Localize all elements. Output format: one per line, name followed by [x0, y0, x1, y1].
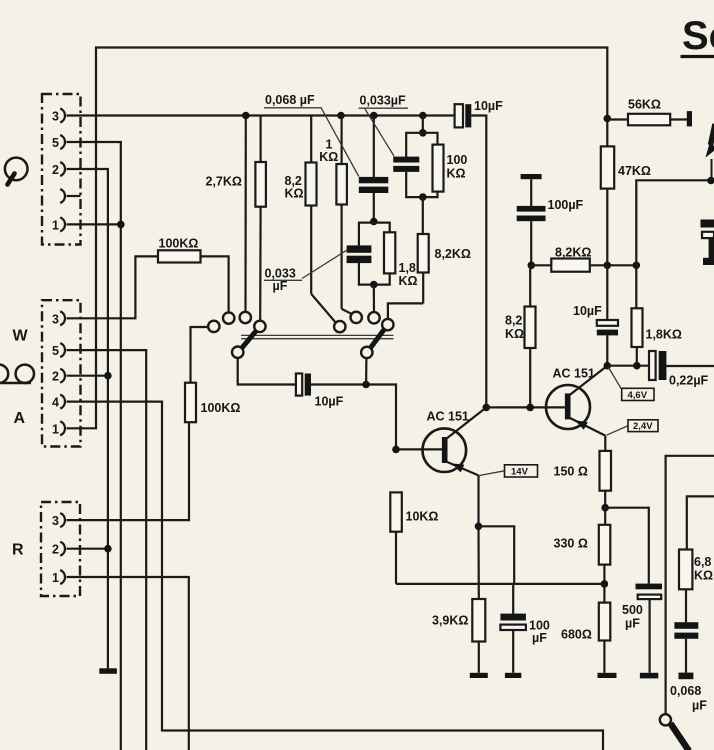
- junction: top of C3/R5 pair: [419, 129, 427, 137]
- switch S1a contact c2: [223, 312, 234, 323]
- wire: collector row to C8: [607, 365, 649, 367]
- svg-text:8,2KΩ: 8,2KΩ: [555, 246, 591, 260]
- pin 3 of B3: [60, 513, 65, 527]
- wire: branch down from input row to C3/R5 pair: [422, 116, 424, 133]
- leader to C1: [322, 109, 359, 177]
- pin 1 of B1: [60, 217, 65, 231]
- switch S1b contact c2: [351, 312, 362, 323]
- wire: parallel rails of C3/R5: [406, 133, 437, 157]
- resistor R5 100K: [433, 145, 444, 192]
- wire: Q1 collector node to Q2 base: [486, 406, 565, 408]
- svg-text:A: A: [14, 410, 26, 427]
- wire: Q1 base: [396, 448, 442, 450]
- svg-text:0,068µF: 0,068µF: [670, 684, 707, 713]
- wire: next stage corner (cut): [687, 496, 714, 549]
- pin 2 of B2: [60, 369, 65, 383]
- svg-text:1: 1: [52, 422, 59, 436]
- svg-text:3,9KΩ: 3,9KΩ: [432, 614, 468, 628]
- svg-text:680Ω: 680Ω: [561, 628, 592, 642]
- svg-text:10µF: 10µF: [315, 395, 344, 409]
- svg-text:AC 151: AC 151: [427, 410, 469, 424]
- junction: node at 100K/0,033 branch: [419, 112, 427, 120]
- junction: R10 / R12 node: [633, 262, 641, 270]
- svg-text:AC 151: AC 151: [553, 367, 595, 381]
- terminal bar (supply tap): [687, 111, 692, 126]
- svg-text:0,22µF: 0,22µF: [669, 374, 709, 388]
- wire: Q2 emitter down: [604, 436, 606, 451]
- svg-text:5: 5: [52, 136, 59, 150]
- svg-text:Sc: Sc: [682, 14, 714, 58]
- wire: B2 pin5 down bus: [67, 350, 147, 750]
- svg-text:1,8KΩ: 1,8KΩ: [646, 328, 682, 342]
- svg-text:1: 1: [52, 218, 59, 232]
- svg-text:2,4V: 2,4V: [633, 421, 653, 432]
- svg-text:330 Ω: 330 Ω: [554, 537, 588, 551]
- svg-text:3: 3: [52, 514, 59, 528]
- tape recorder symbol: [0, 365, 34, 383]
- transistor Q1 AC151: [423, 407, 487, 475]
- measuring point 4,6V: [609, 368, 655, 401]
- resistor R11 56K (horizontal): [607, 114, 687, 126]
- capacitor C4 10uF (input row): [455, 104, 472, 127]
- wire: S1b pivot down to node: [365, 358, 367, 384]
- switch S2 contact: [660, 714, 671, 725]
- resistor R1 2,7K: [255, 116, 266, 321]
- wire: right branch from 1,8K to edge: [636, 180, 712, 265]
- wire: emitter to R13: [477, 526, 479, 599]
- svg-text:4,6V: 4,6V: [628, 390, 648, 401]
- svg-text:14V: 14V: [511, 466, 529, 477]
- junction: node at 1K branch: [337, 112, 345, 120]
- junction: Q1 base node: [392, 446, 400, 454]
- svg-text:10KΩ: 10KΩ: [406, 510, 439, 524]
- capacitor C11 0,068uF: [674, 622, 698, 672]
- svg-text:47KΩ: 47KΩ: [618, 164, 651, 178]
- resistor R12 1,8K (vertical): [632, 265, 643, 365]
- svg-text:56KΩ: 56KΩ: [628, 98, 661, 112]
- junction: bottom of C2/R4 pair: [370, 281, 378, 289]
- junction: Q1 emitter node: [475, 523, 483, 531]
- resistor R14 8,2K (bias): [525, 265, 536, 407]
- wire: node to C9: [605, 508, 649, 584]
- wire: B1 pin2 to ground bus: [67, 169, 108, 669]
- wire: switch feed down from input row: [244, 116, 247, 312]
- leader to C2: [302, 250, 347, 279]
- junction: R14 on Q2 base row: [526, 404, 534, 412]
- resistor R2 8,2K: [306, 116, 336, 323]
- junction: Q2 collector node: [604, 362, 612, 370]
- junction: S1b pivot node: [362, 381, 370, 389]
- switch S1b pivot contact: [361, 347, 372, 358]
- wire: S1b c4 up to R6: [388, 303, 423, 319]
- svg-text:KΩ: KΩ: [319, 150, 338, 164]
- resistor R10 8,2K (horizontal): [531, 259, 636, 272]
- wire: B1 pin5 down bus: [67, 142, 121, 750]
- resistor R9 10K: [390, 492, 402, 584]
- resistor R6 8,2K: [418, 197, 429, 303]
- junction: top of C2/R4 pair: [370, 218, 378, 226]
- wire: bottom rail: [396, 583, 604, 585]
- resistor R12a 47K: [601, 146, 614, 320]
- svg-text:2,7KΩ: 2,7KΩ: [206, 175, 242, 189]
- svg-text:2: 2: [52, 370, 59, 384]
- switch S1b contact c1: [334, 321, 345, 332]
- capacitor C3 0,033uF: [393, 157, 419, 172]
- wire: emitter jog to bottom rail: [479, 526, 515, 584]
- measuring point 2,4V: [607, 420, 659, 435]
- svg-text:6,8KΩ: 6,8KΩ: [694, 555, 713, 583]
- wire: B3 pin2 to ground bus: [67, 548, 108, 550]
- junction: bottom of C3/R5 pair: [419, 193, 427, 201]
- leader to C3: [365, 109, 394, 156]
- switch S1b lever: [370, 329, 384, 348]
- switch S1a pivot contact: [232, 347, 243, 358]
- junction: pin1/pin5 bus: [117, 221, 125, 229]
- switch S1a contact c4: [254, 321, 265, 332]
- transistor Q2 AC151: [546, 366, 607, 436]
- wire: Q1 emitter down: [477, 475, 479, 526]
- wire: S1a pivot to 10uF C5: [238, 358, 296, 385]
- resistor R16 330: [599, 525, 611, 584]
- junction: C6 / R10 node: [528, 262, 536, 270]
- junction: 1,8K bottom node: [633, 362, 641, 370]
- wire: B1 pin1 to bus junction: [67, 223, 121, 225]
- junction: R pin2 on ground bus: [104, 545, 112, 553]
- svg-text:500µF: 500µF: [622, 603, 643, 631]
- pin 2 of B3: [60, 542, 65, 556]
- svg-text:10µF: 10µF: [573, 304, 602, 318]
- svg-text:0,033µF: 0,033µF: [360, 94, 406, 108]
- junction: bottom rail right node: [601, 580, 609, 588]
- pin 1 of B3: [60, 570, 65, 584]
- wire: input row from B1 pin3 to C1: [67, 114, 455, 116]
- ground bar (R17): [598, 673, 617, 678]
- capacitor C9 500uF: [636, 584, 663, 673]
- svg-text:R: R: [12, 542, 24, 559]
- capacitor C8 0,22uF: [649, 351, 714, 380]
- capacitor C5 10uF: [296, 374, 311, 396]
- junction: node at 2,7K branch: [242, 112, 250, 120]
- wire: B3 pin1 down bus: [67, 577, 189, 750]
- wire: B2 pin1 up left frame, top rail, down to node A1: [67, 48, 608, 429]
- pin 5 of B2: [60, 343, 65, 357]
- svg-text:100KΩ: 100KΩ: [201, 401, 241, 415]
- switch S1a contact c3: [240, 312, 251, 323]
- svg-text:1: 1: [52, 571, 59, 585]
- svg-text:100µF: 100µF: [548, 198, 584, 212]
- ground bar (R13): [470, 673, 488, 678]
- switch S1a mechanical coupling lines: [241, 334, 394, 336]
- resistor R13 3,9K: [472, 599, 485, 673]
- pin 3 of B2: [60, 311, 65, 325]
- svg-text:0,068 µF: 0,068 µF: [265, 93, 315, 107]
- wire: parallel rails of C2/R4: [359, 223, 390, 246]
- ground bar (left bus): [99, 668, 117, 674]
- capacitor C2 0,033uF: [347, 245, 372, 263]
- svg-text:150 Ω: 150 Ω: [554, 465, 588, 479]
- supply arrow symbol: [706, 124, 714, 180]
- svg-text:3: 3: [52, 110, 59, 124]
- svg-text:5: 5: [52, 344, 59, 358]
- resistor R17 680: [599, 584, 611, 673]
- connector block B2 (W/A socket): [42, 300, 81, 446]
- svg-text:3: 3: [52, 312, 59, 326]
- svg-text:100µF: 100µF: [529, 619, 550, 646]
- ground bar (C9): [640, 673, 658, 679]
- capacitor C10 100uF: [500, 584, 526, 673]
- pin 4 of B2: [60, 395, 65, 409]
- wire: pair bottom to switch contact: [373, 285, 375, 313]
- capacitor C7 10uF (vertical plates): [597, 320, 618, 366]
- switch S1a contact c1: [208, 321, 219, 332]
- svg-text:100KΩ: 100KΩ: [447, 153, 468, 181]
- svg-text:100KΩ: 100KΩ: [159, 237, 199, 251]
- svg-text:2: 2: [52, 543, 59, 557]
- pin 1 of B2: [60, 421, 65, 435]
- wire: C4 to Q1 collector node: [471, 116, 486, 408]
- junction: R10 on 47K column: [604, 262, 612, 270]
- switch S2 lever: [671, 724, 690, 750]
- junction: Q1 collector node: [483, 404, 491, 412]
- resistor R8 100K (vertical): [185, 327, 208, 422]
- junction: R15/R16 node: [601, 504, 609, 512]
- pin 3 of B1: [60, 109, 65, 123]
- junction: node at 0,068uF branch: [370, 112, 378, 120]
- switch S1b contact c3: [368, 312, 379, 323]
- resistor R3 1K: [336, 116, 352, 315]
- resistor R15 150: [600, 451, 612, 525]
- wire: output stage L corner (cut): [666, 456, 714, 714]
- connector block B1 (top DIN socket): [42, 94, 81, 245]
- ground bar (C11): [679, 673, 694, 680]
- svg-text:8,2KΩ: 8,2KΩ: [435, 247, 471, 261]
- unlabeled pin of B1: [60, 189, 65, 203]
- svg-text:10µF: 10µF: [474, 99, 503, 113]
- measuring point 14V: [479, 465, 538, 478]
- pin 5 of B1: [60, 135, 65, 149]
- svg-text:W: W: [13, 328, 29, 345]
- svg-text:µF: µF: [273, 279, 288, 293]
- svg-text:8,2KΩ: 8,2KΩ: [285, 174, 304, 201]
- svg-text:2: 2: [52, 163, 59, 177]
- switch S1a lever: [242, 331, 257, 349]
- resistor R7 100K (horizontal): [67, 250, 229, 318]
- svg-text:1,8KΩ: 1,8KΩ: [399, 261, 418, 288]
- svg-text:8,2KΩ: 8,2KΩ: [505, 314, 524, 342]
- wire: C5 to Q1 base drop: [311, 385, 396, 450]
- wire: B2 pin4 down bus to bottom rail: [67, 402, 604, 750]
- resistor R18 6,8K: [679, 550, 692, 623]
- microphone symbol: [5, 158, 28, 185]
- switch S1b contact c4: [382, 319, 393, 330]
- junction: W pin2 on ground bus: [104, 372, 112, 380]
- junction: top supply node: [604, 115, 612, 123]
- capacitor C6 100uF: [517, 174, 546, 265]
- junction: arrow node: [707, 177, 714, 185]
- pin 2 of B1: [60, 162, 65, 176]
- capacitor (right edge, cut): [701, 220, 714, 266]
- ground bar (C10): [505, 673, 521, 678]
- resistor R4 1,8K: [384, 232, 395, 273]
- wire: B3 pin3 up to 100K R8: [67, 422, 190, 520]
- connector block B3 (R socket): [41, 502, 80, 596]
- wire: B2 pin2 to ground bus: [67, 375, 108, 377]
- capacitor C1 0,068uF: [359, 116, 389, 222]
- svg-text:4: 4: [52, 396, 59, 410]
